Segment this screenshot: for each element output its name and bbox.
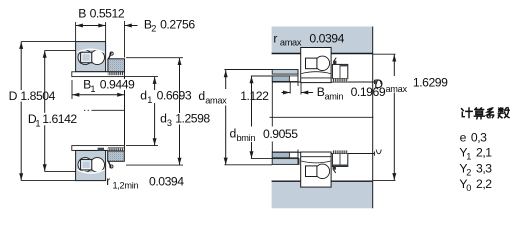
svg-text:B: B xyxy=(78,6,86,20)
lock nut hatched (top section) xyxy=(108,59,125,72)
lock nut hatched (bottom section) xyxy=(108,151,125,161)
svg-text:0.5512: 0.5512 xyxy=(90,6,125,20)
bearing box top (white) xyxy=(301,48,331,83)
shaft shoulder lower xyxy=(272,152,289,158)
shaft step box lower xyxy=(289,152,298,158)
dimension D1 : extension lines xyxy=(45,49,76,51)
label d1 0.6693 xyxy=(139,88,192,104)
adapter sleeve band (bottom section) xyxy=(72,146,125,151)
inner ring bottom edge line (right fig bottom) xyxy=(301,161,330,163)
bearing box bottom (white) xyxy=(301,152,331,187)
dimension d3 : dimension line with arrows xyxy=(179,58,181,113)
sleeve line inside bearing top xyxy=(301,77,331,79)
lock nut right fig bottom xyxy=(332,154,347,167)
svg-text:D: D xyxy=(374,77,383,91)
centerline right figure xyxy=(270,116,374,118)
raceway arc (bottom section) xyxy=(77,170,104,173)
dimension Da max : dimension line with arrows xyxy=(393,54,395,76)
svg-text:D: D xyxy=(9,89,18,103)
label d3 1.2598 xyxy=(159,111,212,127)
inner ring top edge (bottom section) xyxy=(76,149,125,151)
svg-text:d: d xyxy=(230,126,236,140)
shaft break upper xyxy=(374,80,376,84)
inner ring top edge line (right fig top) xyxy=(301,72,330,74)
svg-text:1.6142: 1.6142 xyxy=(42,112,77,126)
shaft break lower xyxy=(374,152,376,156)
svg-text:0.9449: 0.9449 xyxy=(100,78,135,92)
svg-text:0.0394: 0.0394 xyxy=(309,31,344,45)
cage box right fig top xyxy=(306,58,317,69)
ball left (bottom section) xyxy=(78,158,92,172)
dimension D : dimension line with arrows xyxy=(20,42,22,181)
svg-text:amin: amin xyxy=(325,91,344,101)
dimension da : extension lines xyxy=(224,69,272,71)
svg-text:d: d xyxy=(198,89,204,103)
outer ring top section xyxy=(76,42,106,72)
svg-text:1: 1 xyxy=(90,84,95,94)
dimension d1 : dimension line with arrows xyxy=(154,77,156,90)
char ji xyxy=(462,109,465,117)
svg-text:3,3: 3,3 xyxy=(476,161,492,175)
svg-text:d: d xyxy=(140,88,146,102)
ball right (bottom section) xyxy=(90,158,104,172)
shaft step box upper xyxy=(289,76,298,82)
sleeve left face line upper xyxy=(297,70,299,87)
svg-text:2: 2 xyxy=(466,167,471,177)
label da max 1.122 xyxy=(198,89,270,105)
housing bottom bore lines xyxy=(272,180,301,182)
lock washer tab (top section) xyxy=(109,53,112,59)
label db min 0.9055 xyxy=(229,126,300,143)
shaft shoulder upper xyxy=(272,76,289,82)
ball right fig bottom xyxy=(315,164,329,178)
svg-text:bmin: bmin xyxy=(237,133,256,143)
thread comb right fig top xyxy=(332,79,347,82)
svg-text:0,3: 0,3 xyxy=(471,130,487,144)
dimension db : dimension line with arrows xyxy=(251,76,253,126)
svg-text:2,2: 2,2 xyxy=(476,177,492,191)
housing top band xyxy=(272,27,373,54)
svg-text:amax: amax xyxy=(386,84,408,94)
char xi xyxy=(487,108,494,118)
svg-text:1.122: 1.122 xyxy=(240,89,269,103)
dimension db : extension lines xyxy=(251,75,272,77)
sleeve line inside bearing bottom xyxy=(301,156,331,158)
dimension B1 : extension lines xyxy=(71,80,73,99)
svg-text:0.0394: 0.0394 xyxy=(149,175,184,189)
svg-text:0.6693: 0.6693 xyxy=(157,88,192,102)
svg-text:amax: amax xyxy=(205,96,227,106)
housing bottom band xyxy=(272,181,373,208)
dimension B2 : outside arrow xyxy=(125,25,138,27)
dimension B : dimension line with arrows xyxy=(76,25,106,27)
svg-text:1: 1 xyxy=(147,95,152,105)
dimension D : extension lines xyxy=(21,41,75,43)
ball right (top section) xyxy=(90,50,104,64)
svg-text:0.9055: 0.9055 xyxy=(263,127,298,141)
svg-text:1,2min: 1,2min xyxy=(113,180,139,190)
char suan xyxy=(475,108,484,110)
svg-text:r: r xyxy=(273,31,277,45)
shaft surface line upper xyxy=(272,81,374,83)
svg-text:2: 2 xyxy=(151,24,156,34)
dimension da : dimension line with arrows xyxy=(225,70,227,89)
sleeve thread comb (top section) xyxy=(108,72,125,75)
raceway arc (top section) xyxy=(77,49,104,52)
svg-text:d: d xyxy=(160,111,166,125)
svg-text:0.2756: 0.2756 xyxy=(160,17,195,31)
outer ring bottom section xyxy=(76,150,106,180)
housing top bore lines xyxy=(272,53,301,55)
svg-text:1.6299: 1.6299 xyxy=(413,75,448,89)
dimension Ba min : outside arrows xyxy=(282,92,291,94)
label B1 0.9449 xyxy=(82,79,136,90)
cage box right fig bottom xyxy=(306,166,317,177)
housing right section edge xyxy=(372,27,374,209)
heading ji suan xi shu xyxy=(462,108,510,119)
dimension d3 : extension lines xyxy=(126,57,183,59)
label D1 1.6142 xyxy=(26,112,79,128)
shaft surface line lower xyxy=(272,151,301,153)
centerline left figure xyxy=(84,109,91,111)
svg-text:e: e xyxy=(460,130,467,144)
dimension B2 : extension line xyxy=(124,21,126,58)
svg-text:1: 1 xyxy=(35,119,40,129)
ball right fig top xyxy=(315,56,329,70)
washer tab right fig top xyxy=(333,61,336,64)
svg-text:1: 1 xyxy=(466,152,471,162)
sleeve right face line between sections xyxy=(124,77,126,146)
cage box (bottom section) xyxy=(80,159,91,170)
ball left (top section) xyxy=(78,50,92,64)
dimension d1 : extension lines xyxy=(125,76,159,78)
inner ring bottom edge (top section) xyxy=(76,71,125,73)
svg-text:0: 0 xyxy=(466,183,471,193)
cage box (top section) xyxy=(80,52,91,63)
svg-text:1.2598: 1.2598 xyxy=(175,111,210,125)
dimension Ba min : extension lines xyxy=(289,82,291,94)
shaft abutment ring lower xyxy=(272,159,299,165)
washer tab right fig bottom xyxy=(333,167,336,170)
dimension B1 : dimension line with arrows xyxy=(72,94,125,96)
sleeve thread comb (bottom section) xyxy=(108,147,125,149)
lock nut right fig top xyxy=(332,64,347,78)
shaft end face line xyxy=(271,82,273,127)
washer bent tab on thread (bottom section) xyxy=(98,148,104,151)
thread comb right fig bottom xyxy=(332,150,347,153)
label D 1.8504 xyxy=(4,89,56,103)
svg-text:2,1: 2,1 xyxy=(476,146,492,160)
svg-text:r: r xyxy=(106,174,110,188)
sleeve left face line lower xyxy=(297,150,299,165)
svg-text:1.8504: 1.8504 xyxy=(20,89,55,103)
dimension D1 : dimension line with arrows xyxy=(44,50,46,171)
adapter sleeve band (top section) xyxy=(72,72,125,77)
svg-text:3: 3 xyxy=(167,118,172,128)
lock washer tab (bottom section) xyxy=(108,161,111,167)
dimension Da max : extension lines xyxy=(373,53,396,55)
dimension B : extension lines xyxy=(75,22,77,42)
shaft abutment ring upper xyxy=(272,70,298,75)
char shu xyxy=(498,108,503,118)
svg-text:amax: amax xyxy=(280,37,302,47)
